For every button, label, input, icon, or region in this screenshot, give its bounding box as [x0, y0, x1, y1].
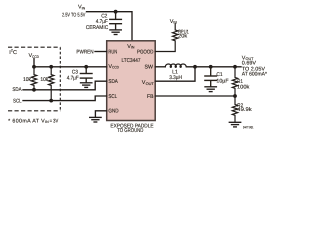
- ground (below C3): [81, 83, 92, 88]
- svg-text:3447 TA01: 3447 TA01: [243, 125, 254, 129]
- capacitor C1: [205, 67, 217, 86]
- svg-text:10k: 10k: [23, 77, 31, 83]
- svg-text:10k: 10k: [40, 77, 48, 83]
- svg-text:49.9k: 49.9k: [237, 107, 252, 113]
- ground (below C2): [110, 30, 121, 35]
- capacitor C2: [110, 12, 122, 30]
- op IC U1 LTC3447 body: [107, 41, 156, 121]
- wire SW to L1: [155, 66, 165, 68]
- svg-text:TO GROUND: TO GROUND: [117, 128, 143, 134]
- node junction dot SCL/R: [49, 99, 53, 103]
- resistor 10k (SDA pull-up): [31, 67, 36, 90]
- node I2C label: [9, 49, 17, 57]
- svg-text:SDA: SDA: [108, 79, 118, 85]
- svg-text:IN: IN: [45, 120, 49, 124]
- svg-text:IN: IN: [131, 46, 135, 50]
- value label R1 100k: [237, 79, 250, 90]
- node VIN label (input supply): [62, 5, 86, 19]
- resistor 10k (SCL pull-up): [49, 67, 54, 101]
- wire GND pin to ground: [95, 111, 106, 117]
- svg-text:SW: SW: [145, 65, 154, 71]
- node junction dot SDA/R: [32, 88, 36, 92]
- wire VOUT pin up to rail: [155, 67, 195, 81]
- resistor RPU1 20k: [155, 24, 178, 52]
- svg-text:100k: 100k: [237, 84, 250, 90]
- node junction dot FB/divider: [233, 94, 237, 98]
- svg-text:SCL: SCL: [108, 94, 117, 100]
- note exposed paddle: [110, 123, 153, 134]
- svg-text:PGOOD: PGOOD: [137, 50, 154, 56]
- svg-text:AT 600mA*: AT 600mA*: [242, 71, 267, 77]
- svg-text:CERAMIC: CERAMIC: [86, 25, 108, 31]
- svg-text:FB: FB: [147, 94, 154, 100]
- svg-text:CCD: CCD: [112, 66, 119, 70]
- node VOUT label block: [242, 56, 267, 78]
- wire PWREN to RUN: [95, 51, 107, 53]
- pin VIN (top) label: [108, 44, 154, 115]
- svg-text:= 3V: = 3V: [50, 118, 59, 124]
- node junction dot C3 tap: [84, 65, 88, 69]
- value label C2 4.7uF CERAMIC: [86, 13, 109, 30]
- resistor R1 100k: [232, 67, 237, 96]
- node junction dot R-SDA top: [32, 65, 36, 69]
- node junction dot C2 tap: [114, 10, 118, 14]
- node junction dot VOUT/rail: [193, 65, 197, 69]
- wire VOUT rail: [187, 66, 242, 68]
- wire VCCD rail to VCC pin: [34, 66, 107, 68]
- svg-text:10µF: 10µF: [216, 78, 229, 84]
- value label C3 4.7uF: [67, 69, 80, 81]
- node junction dot R1 tap: [233, 65, 237, 69]
- svg-text:GND: GND: [108, 108, 118, 114]
- node junction dot R-SCL top: [49, 65, 53, 69]
- svg-text:2.5V TO 5.5V: 2.5V TO 5.5V: [62, 12, 86, 18]
- value label C1 10uF: [216, 72, 229, 84]
- wire SCL to pin: [23, 96, 107, 101]
- svg-text:20k: 20k: [178, 34, 187, 40]
- ground (below C1): [205, 87, 216, 92]
- note footnote: [8, 118, 58, 124]
- svg-text:CCD: CCD: [32, 55, 39, 59]
- inductor L1 3.3uH: [165, 64, 186, 67]
- node VIN label (pull-up supply): [170, 19, 178, 25]
- wire FB to divider: [155, 95, 235, 97]
- svg-text:SCL: SCL: [13, 99, 22, 105]
- wire VIN rail to IC VIN pin: [87, 12, 133, 41]
- value label RPU1 20k: [178, 29, 189, 39]
- resistor R2 49.9k: [232, 96, 237, 122]
- node junction dot C1 tap: [209, 65, 213, 69]
- svg-text:LTC3447: LTC3447: [122, 58, 141, 64]
- svg-text:PWREN: PWREN: [76, 50, 93, 56]
- ground (GND pin): [90, 117, 101, 122]
- value label R2 49.9k: [237, 103, 252, 113]
- svg-text:* 600mA AT V: * 600mA AT V: [8, 118, 45, 124]
- wire VCCD stub: [33, 59, 35, 67]
- svg-text:OUT: OUT: [146, 82, 155, 86]
- wire SDA to pin: [23, 81, 107, 90]
- box I2C host (dashed): [8, 47, 60, 111]
- svg-text:IN: IN: [82, 6, 86, 10]
- ground (below R2): [229, 122, 240, 127]
- svg-text:3.3µH: 3.3µH: [169, 75, 182, 81]
- svg-text:4.7µF: 4.7µF: [67, 75, 80, 81]
- svg-text:C: C: [13, 50, 17, 56]
- svg-text:SDA: SDA: [12, 87, 22, 93]
- node VCCD label: [29, 53, 40, 59]
- svg-text:RUN: RUN: [108, 50, 117, 56]
- capacitor C3: [80, 67, 92, 82]
- value label L1 3.3uH: [169, 69, 182, 81]
- svg-text:C1: C1: [216, 72, 222, 78]
